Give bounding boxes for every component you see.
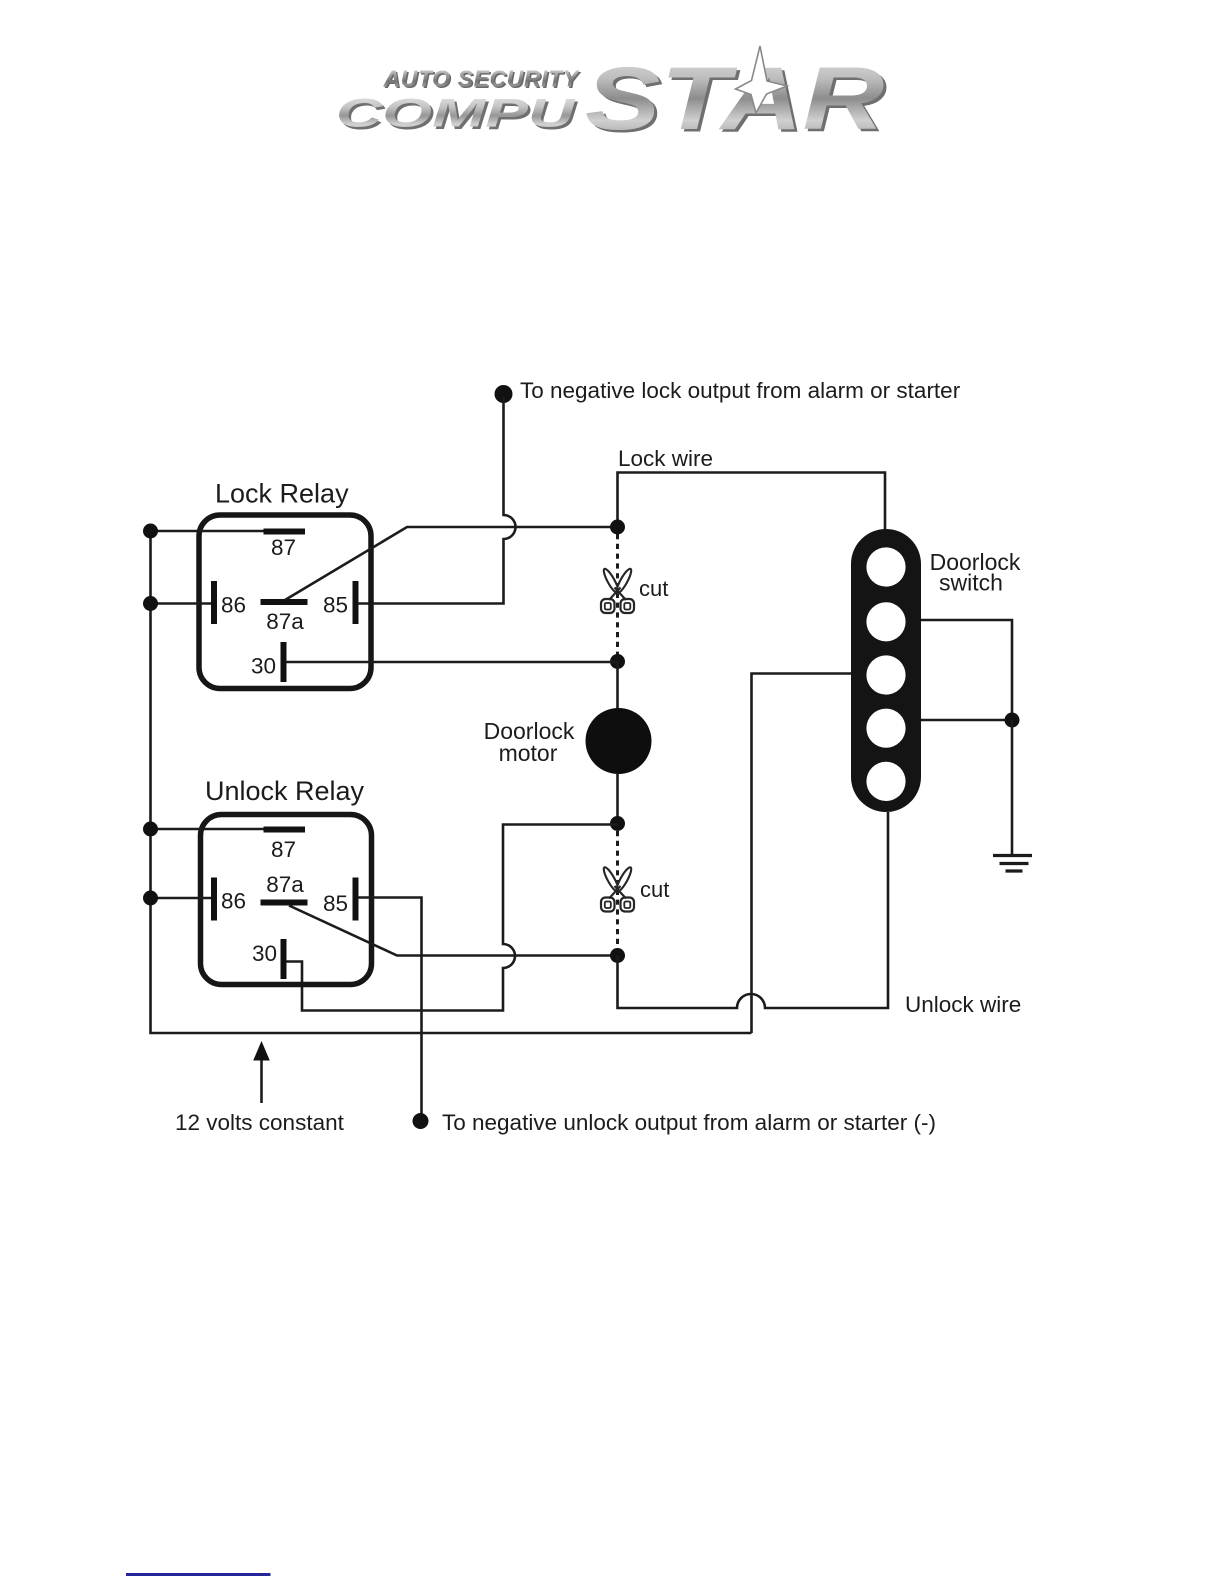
wire: doorlock switch upper right contact [921,620,1012,720]
wire: doorlock switch lower right contact to ground junction [921,719,1012,722]
svg-text:30: 30 [252,941,277,966]
svg-text:85: 85 [323,891,348,916]
node: to negative unlock output terminal dot [413,1113,429,1129]
icon: scissors (lock cut) [601,567,634,613]
svg-text:87: 87 [271,535,296,560]
node: to negative lock output terminal dot [495,385,513,403]
node: motor bottom junction dot [610,816,625,831]
node: rail dot at lock 87 feed [143,524,158,539]
wire: doorlock switch left contact down to 12V bottom rail [752,674,852,1034]
pin bar 86 (lock relay) [211,581,217,624]
node: lock wire junction dot [610,520,625,535]
wire: unlock junction down, hop, right and up to doorlock switch bottom [618,812,889,1008]
wire: lock relay 87a diagonal to lock wire junction [285,527,618,600]
wire: left rail to unlock relay pin 87 [151,828,265,831]
svg-text:87a: 87a [266,872,304,897]
node: rail dot at unlock 87 feed [143,822,158,837]
pin bar 86 (unlock relay) [211,878,217,921]
pin bar 30 (lock relay) [281,642,287,682]
wire: left 12V rail down and right along bottom to doorlock switch leg [151,531,752,1033]
relay box: Unlock Relay outline [201,815,372,985]
wire: left rail to unlock relay pin 86 [151,897,212,900]
svg-text:87a: 87a [266,609,304,634]
icon: scissors (unlock cut) [601,866,634,912]
node: rail dot at lock 86 feed [143,596,158,611]
pin bar 87a (unlock relay) [261,900,308,906]
logo CompuStar: STAR text [585,49,884,149]
wire: left rail to lock relay pin 86 [151,602,212,605]
doorlock switch hole 5 [866,762,905,801]
wire: lock relay pin 30 to junction [286,661,618,664]
svg-text:12 volts constant: 12 volts constant [175,1110,345,1135]
wire: negative lock output down, hop, to pin 85 of lock relay [359,397,516,604]
component: doorlock switch body [851,529,921,812]
svg-text:To negative unlock output from: To negative unlock output from alarm or … [442,1110,936,1135]
arrow: 12 volts constant pointer [260,1058,263,1103]
ground symbol [993,856,1032,872]
doorlock switch hole 2 [866,602,905,641]
pin bar 87 (unlock relay) [264,827,306,833]
wire: dashed cut segment (unlock) [616,831,619,948]
wire: ground junction down to ground symbol [1011,720,1014,854]
wire: unlock relay 87a diagonal to unlock junction [289,906,618,956]
pin bar 85 (unlock relay) [353,878,359,921]
svg-text:87: 87 [271,837,296,862]
doorlock switch hole 4 [866,709,905,748]
wire: motor junction left, down with hop, to unlock relay pin 30 [286,825,618,1011]
node: ground junction dot [1005,713,1020,728]
wire: unlock relay pin 85 right and down to negative unlock terminal [359,898,422,1115]
svg-text:86: 86 [221,593,246,618]
pin bar 30 (unlock relay) [281,939,287,979]
svg-text:86: 86 [221,889,246,914]
svg-text:Lock wire: Lock wire [618,446,713,471]
wire: dashed cut segment (lock) [616,534,619,655]
pin bar 87a (lock relay) [261,599,308,605]
relay box: Lock Relay outline [199,515,371,689]
logo CompuStar: star glyph on A [736,46,788,113]
wire: left rail to lock relay pin 87 [151,530,265,533]
svg-text:Lock Relay: Lock Relay [215,478,349,508]
node: lock relay 30 junction dot [610,654,625,669]
svg-text:Unlock wire: Unlock wire [905,992,1021,1017]
component: doorlock motor circle [586,708,652,774]
svg-text:30: 30 [251,654,276,679]
wire: junction down to doorlock motor top [616,662,619,710]
svg-text:STAR: STAR [585,49,884,149]
logo CompuStar: STAR shadow [588,51,887,151]
svg-text:85: 85 [323,593,348,618]
node: unlock junction dot [610,948,625,963]
pin bar 87 (lock relay) [264,529,306,535]
wire: doorlock motor bottom to junction [616,773,619,824]
doorlock switch hole 1 [866,547,905,586]
svg-text:switch: switch [939,570,1003,596]
svg-text:motor: motor [499,740,558,766]
svg-text:COMPU: COMPU [336,91,576,135]
wire: lock wire from junction up and right to doorlock switch top [618,473,886,531]
svg-text:Unlock Relay: Unlock Relay [205,776,365,806]
svg-text:To negative lock output from a: To negative lock output from alarm or st… [520,378,961,403]
pin bar 85 (lock relay) [353,581,359,624]
logo CompuStar: COMPU shadow [339,94,579,138]
node: rail dot at unlock 86 feed [143,891,158,906]
doorlock switch hole 3 [866,655,905,694]
svg-text:AUTO SECURITY: AUTO SECURITY [383,65,581,91]
footer blue rule [126,1573,271,1576]
svg-text:cut: cut [639,576,668,601]
svg-text:cut: cut [640,877,669,902]
logo CompuStar: COMPU text [336,91,576,135]
